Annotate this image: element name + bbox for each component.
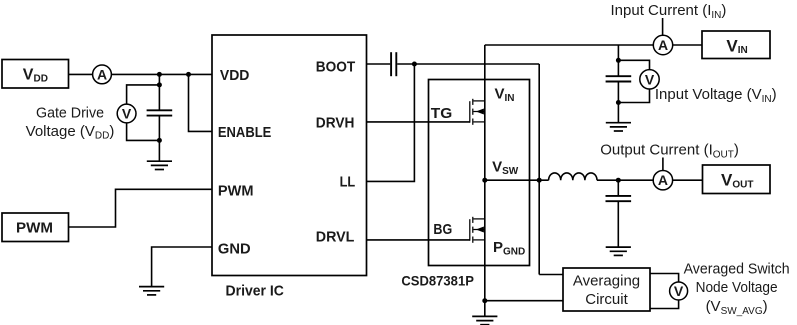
svg-text:A: A bbox=[658, 37, 668, 53]
svg-text:V: V bbox=[645, 71, 655, 87]
svg-text:PWM: PWM bbox=[218, 183, 254, 200]
svg-text:PWM: PWM bbox=[16, 219, 53, 236]
svg-text:Gate Drive: Gate Drive bbox=[36, 105, 104, 122]
svg-text:Output Current (IOUT): Output Current (IOUT) bbox=[600, 142, 739, 161]
svg-text:BG: BG bbox=[433, 221, 452, 238]
svg-text:DRVL: DRVL bbox=[316, 229, 355, 246]
svg-text:VDD: VDD bbox=[220, 67, 250, 84]
svg-text:BOOT: BOOT bbox=[316, 58, 355, 75]
svg-text:V: V bbox=[674, 283, 684, 299]
svg-text:Circuit: Circuit bbox=[585, 291, 628, 308]
svg-text:ENABLE: ENABLE bbox=[218, 124, 271, 141]
svg-text:TG: TG bbox=[431, 105, 453, 122]
svg-text:Driver IC: Driver IC bbox=[226, 283, 285, 300]
svg-text:CSD87381P: CSD87381P bbox=[401, 273, 474, 289]
svg-text:Averaged Switch: Averaged Switch bbox=[684, 261, 790, 278]
svg-text:Voltage (VDD): Voltage (VDD) bbox=[26, 123, 115, 142]
svg-text:GND: GND bbox=[218, 240, 251, 257]
svg-text:A: A bbox=[658, 172, 668, 188]
svg-text:V: V bbox=[122, 106, 132, 122]
svg-text:LL: LL bbox=[340, 174, 356, 191]
svg-text:DRVH: DRVH bbox=[316, 114, 355, 131]
svg-text:Input Current (IIN): Input Current (IIN) bbox=[611, 2, 727, 21]
svg-text:Averaging: Averaging bbox=[573, 272, 640, 289]
svg-text:(VSW_AVG): (VSW_AVG) bbox=[706, 298, 768, 317]
svg-text:Node Voltage: Node Voltage bbox=[696, 279, 778, 296]
svg-text:Input Voltage (VIN): Input Voltage (VIN) bbox=[655, 86, 777, 105]
svg-text:A: A bbox=[97, 66, 107, 82]
